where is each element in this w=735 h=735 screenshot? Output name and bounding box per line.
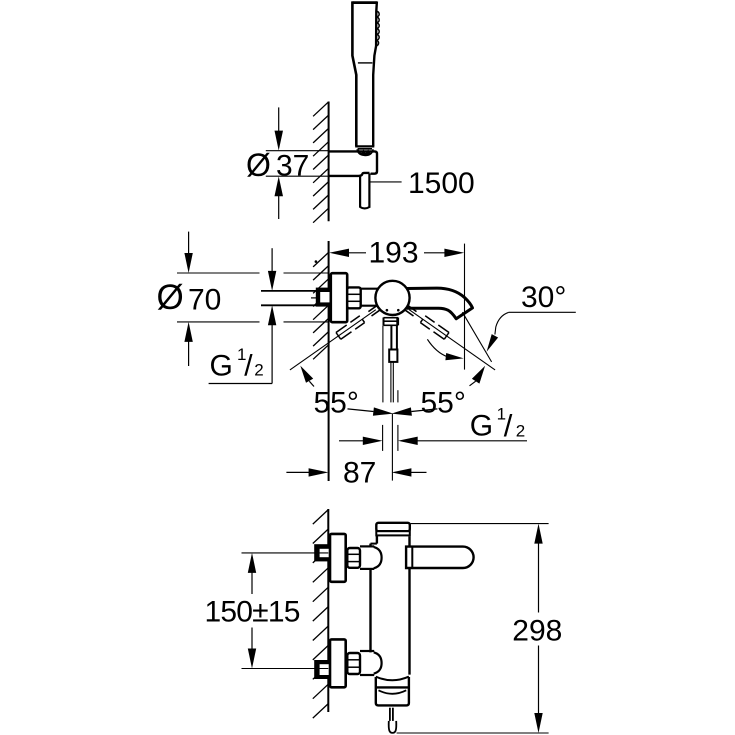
phantom handle dashes near circle (left) [372, 310, 380, 316]
svg-text:1500: 1500 [408, 167, 475, 200]
svg-text:G: G [470, 410, 493, 443]
svg-text:193: 193 [369, 237, 419, 270]
phantom handle dashes near circle (right) [405, 310, 413, 316]
escutcheon flange (front view) [331, 273, 347, 322]
svg-text:/: / [244, 349, 253, 382]
55-degree swivel line (left) [290, 310, 376, 370]
union nut (upper) [347, 548, 360, 568]
valve knob circle [375, 281, 409, 315]
dimension 193 line and arrows [334, 252, 366, 254]
hand shower head outline [352, 1, 377, 4]
union nut (front view) [347, 287, 361, 308]
dimension 298 arrows [534, 524, 542, 544]
adapter (upper) [360, 545, 374, 547]
extension lines below handle [382, 326, 384, 403]
supply pipe (left) [261, 290, 317, 292]
dimension 150±15 arrows [248, 553, 256, 573]
lever handle grip tip [389, 350, 397, 362]
dimension Ø37 arrows [278, 107, 280, 131]
escutcheon flange (upper) [330, 534, 346, 582]
wall line (middle) [328, 241, 330, 481]
svg-text:37: 37 [276, 150, 309, 183]
hand shower divider line [358, 62, 373, 64]
spout (front view) [407, 288, 473, 319]
concealed pipe (upper, black) [314, 544, 330, 561]
knob dots [386, 309, 389, 312]
lever collar line [411, 547, 413, 568]
lever handle rod [390, 325, 392, 349]
svg-text:55°: 55° [421, 387, 466, 420]
30-degree reference line [462, 312, 491, 362]
body cylinder (side view) [369, 544, 371, 547]
wall hatching (bottom) [313, 510, 329, 718]
lever handle hub (down position) [383, 318, 385, 326]
svg-text:150±15: 150±15 [205, 596, 300, 629]
55-degree leader arrow (right) [472, 366, 485, 384]
dimension Ø70 arrows [188, 232, 190, 254]
escutcheon flange (lower) [330, 639, 346, 687]
dimension 87 arrows [286, 471, 309, 473]
outlet cup [376, 677, 409, 681]
union nut (lower) [347, 653, 360, 674]
svg-text:G: G [210, 349, 233, 382]
svg-text:Ø: Ø [157, 278, 184, 317]
hand shower spray-face bumps (right edge) [373, 1, 377, 146]
svg-text:298: 298 [512, 615, 562, 648]
leader line 1500 [370, 181, 401, 183]
G 1/2 (right) dimension arrows [339, 440, 363, 442]
dimension 298 extension lines [411, 523, 549, 525]
center line below handle [391, 414, 393, 481]
svg-text:2: 2 [516, 422, 525, 441]
wall line (top) [328, 102, 330, 222]
svg-text:2: 2 [254, 361, 263, 380]
adapter (lower) [360, 650, 374, 652]
wall line (bottom) [327, 509, 329, 712]
concealed union fitting (black) [316, 288, 331, 307]
dimension 193 extension line (vertical, at spout tip) [464, 244, 466, 370]
diverter pull knob [389, 708, 391, 721]
55-degree swivel line (right) [409, 310, 495, 370]
crossing arrows (narrow width callout) [348, 409, 374, 412]
lever handle (side view) [406, 547, 474, 568]
phantom handle grip (right, dashed) [420, 316, 449, 340]
body stub between nut and knob [361, 288, 378, 290]
rotation arc arrow (right swivel) [427, 339, 447, 357]
wall hatching (top) [313, 102, 329, 223]
svg-text:70: 70 [188, 284, 221, 317]
G 1/2 (left) dimension arrows [271, 248, 273, 271]
svg-text:Ø: Ø [246, 147, 271, 183]
shower holder bracket [329, 151, 378, 173]
dimension 150±15 extension lines [242, 552, 329, 554]
concealed pipe (lower, black) [314, 660, 330, 679]
svg-text:55°: 55° [314, 387, 359, 420]
dimension Ø70 extension lines [177, 273, 329, 322]
G 1/2 (left) leader line [209, 383, 273, 385]
hand shower bottom cap [355, 145, 374, 147]
G 1/2 (right) extension lines [382, 425, 384, 451]
shower hose stub [359, 175, 361, 207]
svg-text:/: / [504, 408, 513, 443]
dimension Ø37 extension lines [266, 150, 329, 152]
body top cap [376, 523, 410, 531]
phantom handle grip (left, dashed) [336, 316, 365, 340]
55-degree leader arrow (left) [300, 366, 313, 383]
svg-text:87: 87 [343, 456, 376, 489]
svg-text:30°: 30° [521, 281, 566, 314]
wall hatching (middle) [313, 252, 329, 359]
holder cup (black with white notches) [356, 149, 373, 156]
